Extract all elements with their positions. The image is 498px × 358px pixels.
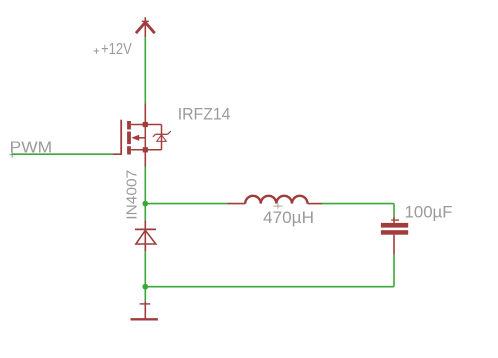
wire: bottom rail: [145, 286, 394, 288]
transistor Q1 IRFZ14: [113, 103, 171, 154]
svg-text:+12V: +12V: [101, 41, 132, 58]
wire: node A to L1: [145, 203, 227, 205]
Q1 drain connection: [131, 124, 162, 126]
Q1 gate lead: [113, 153, 122, 155]
wire: Q1 source to node A: [144, 167, 146, 204]
capacitor C1: [381, 217, 408, 255]
Q1 junction dot drain: [143, 122, 148, 127]
Q1 body diode: [153, 125, 171, 150]
wire: C1 to bottom rail: [393, 255, 395, 287]
wire: supply to Q1 drain: [144, 37, 146, 103]
node B junction dot: [142, 284, 148, 290]
ground: [131, 301, 158, 319]
svg-text:IRFZ14: IRFZ14: [178, 105, 231, 124]
supply symbol +12V (up arrow): [136, 17, 155, 37]
svg-text:100µF: 100µF: [405, 202, 453, 221]
net label +12V: [94, 41, 132, 58]
Q1 internal vertical: [144, 125, 146, 150]
Q1 source connection: [131, 149, 162, 151]
wire: L1 to C1: [322, 203, 394, 205]
net label PWM: [9, 139, 52, 157]
wire: PWM to Q1 gate: [12, 153, 113, 155]
svg-text:IN4007: IN4007: [125, 170, 141, 220]
wire: node A down to D1: [144, 204, 146, 221]
Q1 junction dot source: [143, 147, 148, 152]
wire: corner down to C1: [393, 204, 395, 217]
Q1 channel bars: [127, 121, 131, 155]
Q1 source pin: [144, 150, 146, 167]
Q1 drain pin: [144, 103, 146, 124]
svg-text:470µH: 470µH: [263, 209, 314, 227]
Q1 gate bar: [120, 120, 122, 155]
inductor L1: [227, 196, 322, 204]
Q1 substrate arrow: [131, 135, 145, 141]
node A junction dot: [142, 201, 148, 207]
wire: node B to ground: [144, 287, 146, 302]
L1 origin cross: [274, 204, 283, 209]
wire: D1 anode to node B: [144, 251, 146, 286]
diode D1 IN4007: [135, 220, 156, 251]
